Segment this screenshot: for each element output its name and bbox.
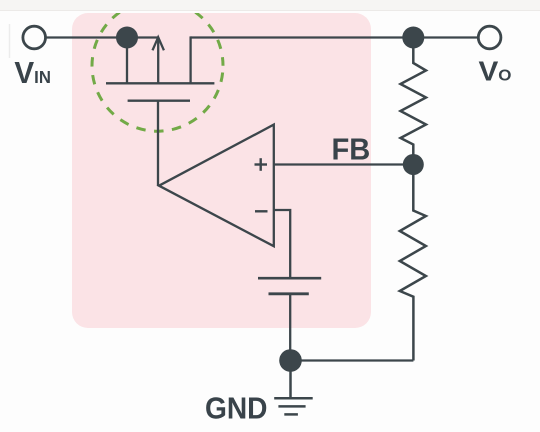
- battery V_REF (voltage reference): [258, 278, 321, 294]
- IC body (pink region): [72, 13, 371, 328]
- node VIN junction dot: [116, 27, 138, 49]
- terminal VIN: [23, 26, 46, 49]
- Q1 drain lead: [189, 36, 191, 83]
- wire VIN to MOSFET source node: [46, 36, 159, 38]
- transistor Q1 (PMOS pass element): [106, 36, 214, 185]
- svg-text:FB: FB: [332, 132, 371, 167]
- Q1 gate lead: [157, 101, 159, 186]
- wire U1 minus input to reference: [274, 210, 290, 278]
- wire U1 plus input to FB node: [274, 163, 414, 165]
- svg-text:GND: GND: [205, 391, 268, 426]
- Q1 channel bar: [106, 82, 214, 84]
- resistor R2 (lower feedback resistor): [400, 164, 426, 360]
- battery long plate: [258, 277, 321, 280]
- wire reference to ground node: [289, 294, 291, 361]
- U1 plus input mark: [255, 158, 268, 171]
- Q1 body arrow: [157, 39, 159, 83]
- highlight circle around Q1 (green dashed): [92, 0, 223, 131]
- wire MOSFET drain to VO: [191, 36, 479, 38]
- wire R2 bottom to ground node: [290, 359, 413, 361]
- U1 minus input mark: [255, 210, 268, 212]
- terminal VO: [478, 26, 501, 49]
- op-amp U1 (error amplifier): [159, 125, 274, 247]
- Q1 source lead: [126, 38, 128, 84]
- Q1 gate bar: [128, 99, 190, 101]
- node GND junction dot: [279, 349, 302, 372]
- node FB junction dot: [403, 154, 424, 175]
- left edge artifact line: [9, 24, 11, 58]
- node VO junction dot: [402, 27, 424, 49]
- ground symbol: [274, 361, 313, 415]
- battery short plate: [269, 292, 309, 295]
- resistor R1 (upper feedback resistor): [401, 38, 427, 165]
- top band: [0, 0, 540, 10]
